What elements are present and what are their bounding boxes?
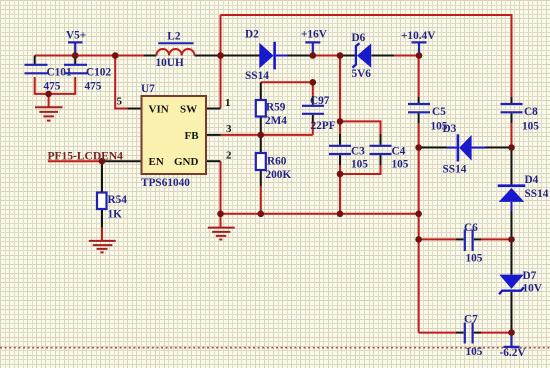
svg-text:C8: C8	[524, 106, 538, 118]
svg-text:D2: D2	[245, 29, 259, 41]
svg-text:V5+: V5+	[66, 30, 86, 42]
svg-text:R54: R54	[108, 194, 128, 206]
svg-text:C5: C5	[432, 106, 446, 118]
svg-text:D3: D3	[443, 123, 457, 135]
svg-text:C97: C97	[310, 95, 330, 107]
svg-text:C3: C3	[351, 146, 365, 158]
svg-text:105: 105	[466, 346, 483, 358]
svg-text:2: 2	[226, 150, 232, 162]
svg-text:-6.2V: -6.2V	[500, 347, 527, 359]
svg-text:D7: D7	[523, 270, 537, 282]
svg-text:PF15-LCDEN4: PF15-LCDEN4	[48, 151, 124, 163]
svg-text:SS14: SS14	[443, 164, 467, 176]
svg-text:R59: R59	[266, 102, 286, 114]
svg-text:C102: C102	[86, 67, 111, 79]
svg-text:105: 105	[392, 159, 409, 171]
svg-text:10UH: 10UH	[156, 57, 184, 69]
svg-text:105: 105	[351, 159, 368, 171]
svg-text:105: 105	[466, 253, 483, 265]
svg-text:200K: 200K	[266, 169, 292, 181]
svg-text:C101: C101	[47, 67, 72, 79]
svg-text:FB: FB	[185, 130, 200, 142]
svg-text:5V6: 5V6	[352, 68, 372, 80]
svg-text:22PF: 22PF	[311, 120, 336, 132]
svg-text:TPS61040: TPS61040	[141, 177, 190, 189]
svg-text:+16V: +16V	[301, 29, 328, 41]
svg-text:1: 1	[225, 97, 231, 109]
svg-text:5: 5	[117, 96, 123, 108]
svg-text:1K: 1K	[108, 209, 123, 221]
svg-text:C4: C4	[392, 146, 406, 158]
svg-text:C7: C7	[464, 314, 478, 326]
svg-text:D4: D4	[525, 174, 539, 186]
svg-text:D6: D6	[352, 32, 366, 44]
svg-text:L2: L2	[167, 31, 181, 43]
svg-text:U7: U7	[141, 83, 155, 95]
svg-text:3: 3	[226, 123, 232, 135]
svg-text:VIN: VIN	[149, 103, 169, 115]
svg-text:10V: 10V	[523, 283, 543, 295]
svg-text:EN: EN	[149, 156, 164, 168]
svg-text:2M4: 2M4	[265, 115, 287, 127]
svg-text:C6: C6	[464, 222, 478, 234]
svg-text:475: 475	[44, 81, 61, 93]
svg-text:R60: R60	[267, 156, 287, 168]
svg-text:475: 475	[85, 81, 102, 93]
svg-text:105: 105	[522, 121, 539, 133]
svg-text:SS14: SS14	[245, 70, 269, 82]
svg-text:SS14: SS14	[525, 188, 549, 200]
svg-text:SW: SW	[180, 103, 197, 115]
svg-text:GND: GND	[174, 156, 199, 168]
svg-text:+10.4V: +10.4V	[401, 30, 436, 42]
